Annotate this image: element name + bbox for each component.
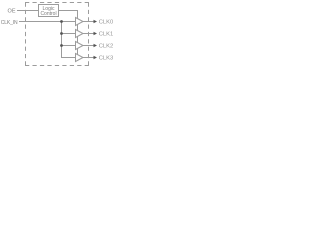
- junction node at CLK_IN wire: [60, 20, 63, 23]
- chip outline (dashed) top edge: [25, 2, 89, 4]
- buffer U3: [76, 42, 84, 50]
- wire branch to buffer U3: [62, 45, 76, 47]
- svg-text:Control: Control: [40, 11, 56, 17]
- svg-text:CLK3: CLK3: [99, 56, 113, 62]
- svg-text:CLK1: CLK1: [99, 32, 113, 38]
- svg-text:CLK_IN: CLK_IN: [1, 20, 18, 26]
- svg-text:CLK2: CLK2: [99, 44, 113, 50]
- chip outline (dashed) right edge: [88, 3, 90, 66]
- buffer U2: [76, 30, 84, 38]
- arrow CLK0: [94, 20, 98, 24]
- buffer U1: [76, 18, 84, 26]
- svg-text:OE: OE: [8, 8, 16, 14]
- logic control block U5: [39, 5, 59, 17]
- wire CLK2 output: [83, 45, 94, 47]
- wire CLK_IN to buffer U1 input: [19, 21, 76, 23]
- arrow CLK2: [94, 44, 98, 48]
- junction node at U2 branch: [60, 32, 63, 35]
- wire OE to logic control: [17, 10, 39, 12]
- wire branch to buffer U2: [62, 33, 76, 35]
- wire clock distribution vertical: [62, 22, 76, 58]
- chip outline (dashed) bottom edge: [25, 65, 89, 67]
- wire CLK0 output: [83, 21, 94, 23]
- chip outline (dashed) left edge: [25, 3, 27, 66]
- wire logic control enable to buffers: [59, 11, 78, 57]
- wire CLK1 output: [83, 33, 94, 35]
- svg-text:CLK0: CLK0: [99, 20, 113, 26]
- buffer U4: [76, 54, 84, 62]
- wire CLK3 output: [83, 57, 94, 59]
- junction node at U3 branch: [60, 44, 63, 47]
- arrow CLK1: [94, 32, 98, 36]
- arrow CLK3: [94, 56, 98, 60]
